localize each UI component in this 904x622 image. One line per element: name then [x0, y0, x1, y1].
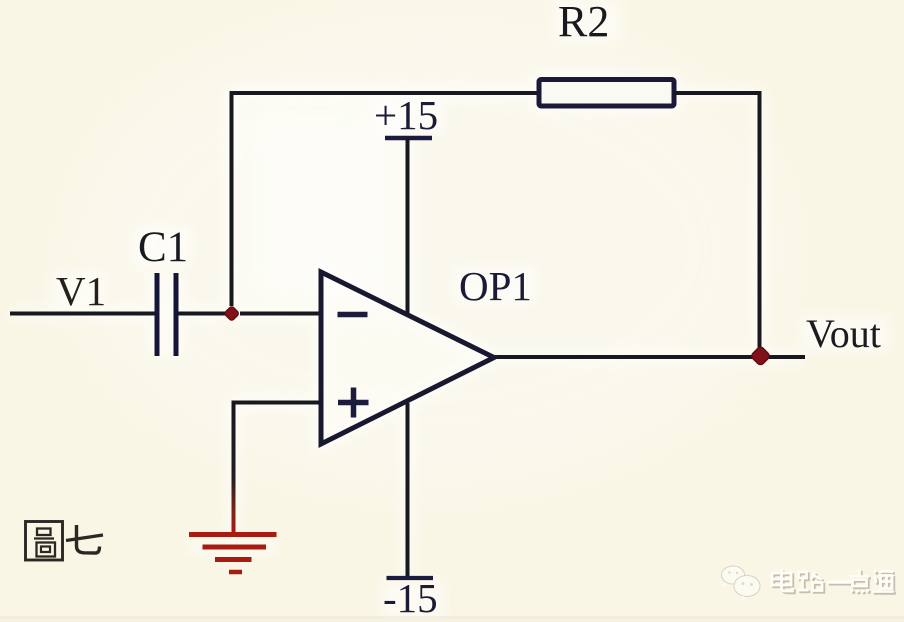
caption 圖七 (Figure 7, drawn glyphs) — [26, 522, 104, 561]
路 — [799, 572, 807, 578]
七 vertical hook stroke — [77, 525, 100, 553]
node A (junction at inverting input) — [224, 306, 240, 322]
wire: C1 right plate to node A — [177, 312, 228, 316]
电 — [774, 575, 793, 587]
ground — [189, 535, 277, 573]
路 — [800, 574, 808, 580]
七 horizontal stroke — [66, 535, 103, 541]
圖 inner top mouth — [37, 529, 51, 536]
圖 inner bottom box — [37, 543, 56, 557]
shadow copy — [774, 571, 896, 595]
wire: vertical down to ground — [232, 401, 236, 534]
wire: node A up to feedback branch — [230, 91, 234, 306]
svg-text:-15: -15 — [383, 575, 438, 621]
wire: op-amp output to Vout — [490, 355, 805, 359]
pin + (non-inverting input mark) — [338, 388, 369, 418]
watermark text 电路一点通 (drawn glyphs) — [772, 569, 896, 594]
capacitor C1 — [157, 273, 176, 356]
svg-text:V1: V1 — [56, 268, 106, 314]
通 — [876, 572, 878, 575]
一 — [850, 569, 869, 593]
电 — [772, 573, 791, 585]
node B (output junction) — [750, 346, 771, 367]
op-amp U1 triangle — [321, 272, 494, 444]
resistor R2 — [539, 80, 674, 107]
svg-text:C1: C1 — [138, 224, 188, 271]
圖 innermost mouth — [41, 547, 50, 553]
圖 middle bar — [34, 537, 54, 539]
通 — [874, 570, 876, 573]
svg-text:OP1: OP1 — [459, 263, 532, 309]
一 — [852, 571, 871, 595]
wire: R2 right to corner — [674, 91, 761, 95]
圖 outer box — [26, 522, 63, 561]
watermark logo (chat bubbles) — [721, 566, 760, 601]
white main copy — [772, 569, 894, 593]
power +15 supply — [385, 138, 432, 313]
wire: top feedback left segment — [230, 91, 541, 95]
power -15 supply — [387, 403, 434, 578]
svg-text:R2: R2 — [558, 0, 609, 46]
wire: node A to inverting input — [240, 312, 322, 316]
点 — [858, 569, 861, 576]
wire: V1 input to C1 left plate — [10, 312, 156, 316]
wire: right feedback vertical down to output node — [758, 91, 762, 353]
点 — [860, 571, 863, 578]
pin - (inverting input mark) — [338, 312, 368, 318]
wire: ground branch to non-inverting input — [232, 401, 323, 405]
svg-text:Vout: Vout — [806, 311, 881, 356]
svg-text:+15: +15 — [374, 92, 438, 138]
